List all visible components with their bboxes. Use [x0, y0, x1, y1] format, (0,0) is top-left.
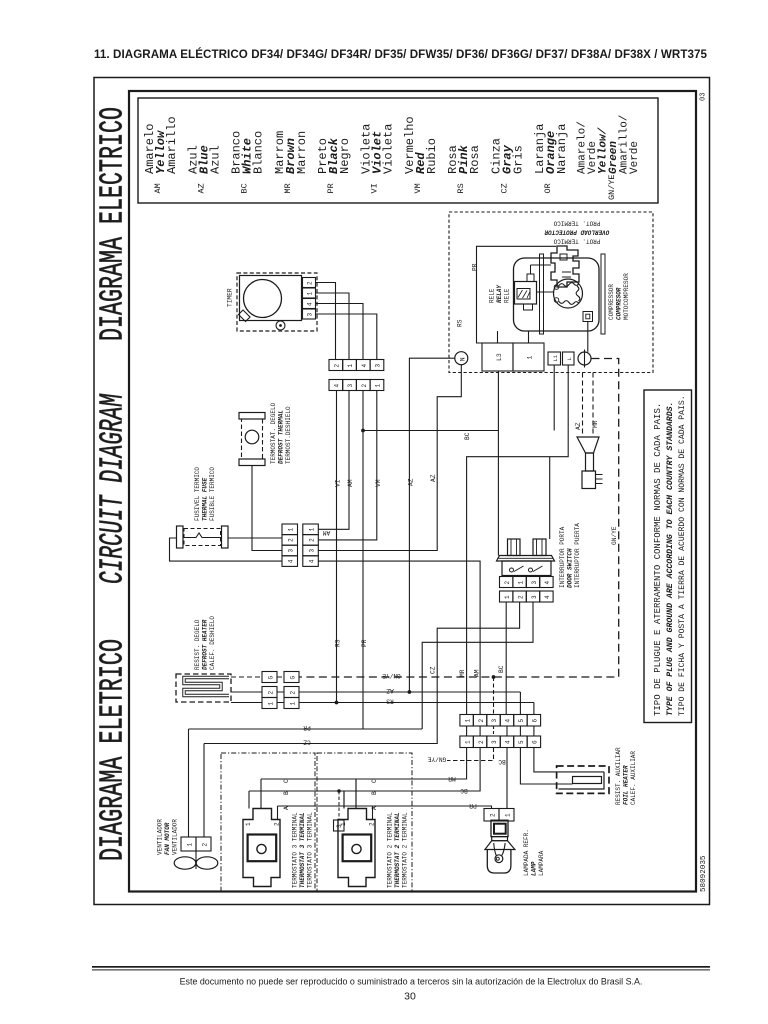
door switch S1	[497, 539, 555, 576]
svg-text:CZ: CZ	[303, 739, 311, 746]
svg-text:C: C	[283, 779, 290, 783]
svg-text:PROT. TERMICO: PROT. TERMICO	[553, 220, 600, 227]
svg-text:RS: RS	[386, 698, 394, 705]
svg-text:INTERRUPTOR PUERTA: INTERRUPTOR PUERTA	[574, 523, 581, 588]
svg-text:G: G	[290, 676, 297, 680]
svg-text:TYPE OF PLUG AND GROUND ARE AC: TYPE OF PLUG AND GROUND ARE ACCORDING TO…	[666, 402, 675, 716]
relay RL1	[515, 265, 554, 310]
wire door switch t3 to PR line	[422, 602, 533, 729]
svg-text:BC: BC	[464, 432, 471, 440]
svg-text:PR: PR	[469, 802, 477, 809]
svg-text:L1: L1	[553, 355, 559, 361]
svg-text:CIRCUIT DIAGRAM: CIRCUIT DIAGRAM	[95, 393, 132, 584]
svg-text:TERMOSTAT. DEGELO: TERMOSTAT. DEGELO	[270, 402, 277, 464]
wire GN/YE dashed branch to strip A t3	[493, 677, 495, 715]
svg-text:AZ: AZ	[430, 474, 437, 482]
svg-text:4: 4	[309, 559, 316, 563]
connector strip CN1 (2 1 4 3)	[329, 360, 384, 371]
wire strip B t6 to foil heater top	[534, 748, 604, 772]
svg-text:6: 6	[532, 719, 539, 723]
svg-text:DOOR SWITCH: DOOR SWITCH	[567, 548, 574, 588]
wire stubs body to terminal blocks	[498, 331, 529, 343]
wire strip B t5 to foil heater inner bar	[520, 748, 572, 785]
connector strip A (1-6)	[460, 715, 541, 727]
svg-text:DEFROST HEATER: DEFROST HEATER	[202, 619, 209, 670]
overload protector (klixon)	[551, 246, 579, 287]
thermostat TH2 wires A B C	[344, 779, 373, 820]
svg-text:3: 3	[288, 549, 295, 553]
heater connector 2 boxes	[262, 687, 277, 698]
svg-text:TERMOSTATO 3 TERMINAL: TERMOSTATO 3 TERMINAL	[307, 812, 314, 888]
svg-text:OVERLOAD PROTECTOR: OVERLOAD PROTECTOR	[544, 229, 609, 236]
svg-text:BC: BC	[498, 758, 506, 765]
svg-text:1: 1	[307, 292, 314, 296]
legend entry VI	[360, 124, 396, 194]
svg-text:58092035: 58092035	[700, 855, 708, 892]
svg-text:AZ: AZ	[407, 478, 414, 486]
terminal L	[563, 352, 575, 365]
svg-text:2: 2	[307, 281, 314, 285]
svg-text:A: A	[283, 806, 290, 810]
wire GN/YE dashed from strip B t3	[447, 748, 494, 761]
svg-text:TIMER: TIMER	[227, 288, 234, 307]
legend entry VM	[403, 116, 439, 193]
svg-text:AM: AM	[323, 529, 331, 536]
svg-text:RS: RS	[335, 639, 342, 647]
svg-text:2: 2	[290, 691, 297, 695]
wire colour legend box	[138, 98, 658, 203]
svg-text:PR: PR	[472, 263, 479, 271]
svg-text:Verde: Verde	[629, 141, 641, 174]
outer border frame	[94, 78, 710, 905]
svg-text:2: 2	[309, 538, 316, 542]
wire AZ from N bottom to plug strip t3	[318, 365, 461, 551]
svg-text:Rubio: Rubio	[425, 138, 439, 174]
door switch terminal row upper (2 1 3 4)	[500, 577, 554, 588]
legend entry BC	[230, 131, 266, 194]
svg-text:INTERRUPTOR PORTA: INTERRUPTOR PORTA	[559, 526, 566, 588]
wire fan t1 up to PR line	[188, 729, 190, 837]
thermostat TH1 wires A B C	[249, 779, 278, 820]
footer rule double line	[92, 966, 710, 968]
compressor mounting rail right	[601, 254, 605, 334]
legend entry PR	[316, 137, 352, 193]
svg-text:RELE: RELE	[489, 288, 496, 303]
foil heater R2	[557, 766, 609, 793]
svg-text:1: 1	[464, 740, 471, 744]
wire strip B t4 to lamp t1	[506, 748, 508, 809]
svg-text:4: 4	[361, 364, 368, 368]
svg-text:CZ: CZ	[500, 183, 510, 193]
svg-text:TERMOST.DESHIELO: TERMOST.DESHIELO	[285, 406, 292, 464]
node junction AZ	[408, 690, 412, 694]
svg-text:Naranja: Naranja	[555, 124, 569, 174]
svg-text:MR: MR	[592, 420, 599, 428]
svg-text:6: 6	[532, 740, 539, 744]
svg-text:1: 1	[464, 719, 471, 723]
lamp terminals	[484, 809, 499, 822]
svg-text:THERMOSTAT 2 TERMINAL: THERMOSTAT 2 TERMINAL	[394, 812, 401, 888]
compressor body shell	[514, 258, 600, 331]
svg-text:PR: PR	[361, 639, 368, 647]
svg-text:CALEF. DESHIELO: CALEF. DESHIELO	[209, 616, 216, 670]
svg-text:03: 03	[700, 93, 708, 101]
svg-text:1: 1	[375, 384, 382, 388]
svg-text:B: B	[283, 791, 290, 795]
svg-text:THERMOSTAT 3 TERMINAL: THERMOSTAT 3 TERMINAL	[299, 812, 306, 888]
svg-text:VM: VM	[375, 479, 382, 487]
TH2 auxiliary dashed tap with connector 3	[338, 791, 340, 820]
svg-text:A: A	[371, 806, 378, 810]
wire C line strip B t1 to thermostats	[261, 748, 467, 809]
compressor internal terminal box B	[583, 312, 593, 322]
svg-text:VM: VM	[413, 183, 423, 193]
legend entry AM	[143, 116, 179, 193]
svg-text:5: 5	[518, 740, 525, 744]
svg-text:THERMAL FUSE: THERMAL FUSE	[202, 477, 209, 521]
svg-text:RELE: RELE	[504, 288, 511, 303]
lamp L1 bulb	[485, 820, 515, 873]
thermostat 2-terminal dash-dot box	[317, 753, 412, 892]
svg-text:N: N	[459, 357, 466, 361]
wire PR from CN2-2 down to fan line	[189, 391, 423, 730]
svg-text:VI: VI	[335, 479, 342, 487]
svg-text:G: G	[268, 676, 275, 680]
timer terminal 1	[303, 288, 316, 298]
svg-text:5: 5	[518, 719, 525, 723]
svg-text:PR: PR	[303, 724, 311, 731]
svg-text:1: 1	[347, 364, 354, 368]
svg-text:VENTILADOR: VENTILADOR	[172, 819, 179, 855]
svg-text:MR: MR	[459, 669, 466, 677]
svg-text:2: 2	[268, 691, 275, 695]
svg-text:BC: BC	[240, 183, 250, 193]
svg-text:4: 4	[307, 302, 314, 306]
wire B line strip B t2 to thermostats	[249, 748, 480, 809]
svg-text:AZ: AZ	[575, 422, 582, 430]
svg-text:3: 3	[531, 595, 538, 599]
thermostat TH2 (2 terminal)	[338, 809, 376, 887]
wire VI/RS vertical from CN2-4	[336, 391, 338, 703]
svg-text:FUSIBLE TERMICO: FUSIBLE TERMICO	[209, 467, 216, 521]
svg-text:2: 2	[369, 822, 376, 826]
heater connector 1 boxes	[262, 698, 277, 709]
wire BC door switch t1 to strip A t4	[505, 602, 507, 715]
thermostat 3-terminal dash-dot box	[221, 753, 315, 892]
svg-text:4: 4	[288, 559, 295, 563]
svg-text:2: 2	[334, 364, 341, 368]
svg-text:TERMOSTATO 3 TERMINAL: TERMOSTATO 3 TERMINAL	[292, 812, 299, 888]
svg-text:3: 3	[491, 719, 498, 723]
wire heater G dashed	[231, 676, 284, 678]
svg-text:AZ: AZ	[197, 183, 207, 193]
wire L1 stub down	[553, 365, 555, 431]
svg-text:L3: L3	[496, 353, 503, 361]
svg-text:Azul: Azul	[209, 145, 223, 174]
svg-text:LAMPARA: LAMPARA	[538, 850, 545, 876]
svg-text:1: 1	[504, 595, 511, 599]
svg-text:VI: VI	[370, 183, 380, 193]
svg-text:DIAGRAMA ELETRICO: DIAGRAMA ELETRICO	[95, 639, 132, 861]
svg-text:GN/YE: GN/YE	[382, 672, 401, 679]
timer T1	[227, 273, 318, 331]
thermal fuse F1	[177, 526, 229, 548]
svg-text:AM: AM	[347, 479, 354, 487]
svg-text:1: 1	[290, 702, 297, 706]
svg-text:VENTILADOR: VENTILADOR	[157, 819, 164, 855]
wire heater 1 (RS) to strip A t6	[231, 703, 534, 715]
defrost heater R1	[176, 674, 231, 702]
compressor mounting rail left	[540, 254, 544, 334]
svg-text:3: 3	[375, 364, 382, 368]
timer terminal 3	[303, 309, 316, 319]
wire A line lamp t2 to thermostats	[278, 806, 492, 809]
terminal L1	[548, 352, 561, 365]
svg-text:TIPO DE FICHA Y POSTA A TIERRA: TIPO DE FICHA Y POSTA A TIERRA DE ACUERD…	[678, 395, 687, 716]
svg-text:2: 2	[288, 538, 295, 542]
svg-text:Rosa: Rosa	[468, 145, 482, 174]
mains plug P1	[577, 437, 603, 489]
svg-text:3: 3	[307, 313, 314, 317]
wire AZ from N left down to heater line	[409, 358, 454, 692]
svg-text:2: 2	[478, 740, 485, 744]
wire timer t2 to strip1	[316, 283, 336, 360]
svg-text:AM: AM	[153, 183, 163, 193]
svg-text:RESIST. DEGELO: RESIST. DEGELO	[194, 619, 201, 670]
svg-text:C: C	[371, 779, 378, 783]
svg-text:FAN MOTOR: FAN MOTOR	[164, 822, 171, 855]
svg-text:Gris: Gris	[512, 145, 526, 174]
svg-text:DIAGRAMA ELECTRICO: DIAGRAMA ELECTRICO	[95, 107, 132, 341]
svg-text:2: 2	[517, 595, 524, 599]
svg-text:GN/YE: GN/YE	[611, 526, 618, 545]
legend entry CZ	[490, 138, 526, 194]
compressor enclosure dash-dot box	[449, 212, 653, 373]
heater connector G boxes	[262, 672, 277, 683]
plug strip left column (1 2 3 4)	[282, 524, 298, 566]
svg-text:COMPRESOR: COMPRESOR	[616, 287, 623, 320]
svg-text:OR: OR	[543, 183, 553, 193]
svg-text:AM: AM	[474, 669, 481, 677]
compressor terminal L3	[482, 343, 513, 371]
svg-text:1: 1	[517, 581, 524, 585]
wire timer t3 to strip1	[316, 314, 377, 360]
svg-text:2: 2	[504, 581, 511, 585]
legend entry GN/YE	[577, 115, 642, 200]
svg-text:2: 2	[361, 384, 368, 388]
node junction GN/YE branch	[492, 675, 496, 679]
svg-text:BC: BC	[498, 665, 505, 673]
svg-text:3: 3	[309, 549, 316, 553]
wire timer t4 to strip1	[316, 304, 364, 360]
legend entry OR	[533, 124, 569, 194]
wire terminal B to earth pin	[587, 322, 589, 352]
svg-text:4: 4	[334, 384, 341, 388]
svg-text:TIPO DE PLUGUE E ATERRAMENTO C: TIPO DE PLUGUE E ATERRAMENTO CONFORME NO…	[653, 403, 663, 716]
svg-text:FUSIVEL TERMICO: FUSIVEL TERMICO	[194, 467, 201, 521]
svg-text:4: 4	[505, 740, 512, 744]
plug strip right column (1 2 3 4)	[303, 524, 319, 566]
svg-text:RS: RS	[456, 183, 466, 193]
svg-text:Blanco: Blanco	[252, 131, 266, 174]
svg-text:2: 2	[202, 843, 209, 847]
legend entry MR	[273, 131, 309, 194]
svg-text:1: 1	[245, 822, 252, 826]
door switch terminal row lower (1 2 3 4)	[500, 591, 554, 602]
connector strip CN2 (4 3 2 1)	[329, 380, 384, 391]
svg-text:MR: MR	[448, 775, 456, 782]
svg-text:3: 3	[336, 824, 343, 828]
svg-text:Marron: Marron	[295, 131, 309, 174]
svg-text:RS: RS	[457, 319, 464, 327]
svg-text:BC: BC	[460, 787, 468, 794]
node junction BC tap	[361, 429, 365, 433]
wire GN/YE dashed earth run	[299, 359, 619, 678]
compressor motor windings	[554, 279, 583, 308]
earth pin	[578, 352, 591, 365]
svg-text:3: 3	[347, 384, 354, 388]
legend entry RS	[446, 144, 482, 193]
wire heater 2 (AZ) to strip A t5	[231, 692, 520, 715]
legend entry AZ	[187, 145, 223, 193]
svg-text:3: 3	[491, 740, 498, 744]
svg-text:LAMPADA REFR.: LAMPADA REFR.	[523, 829, 530, 876]
compressor terminal 1	[513, 343, 544, 371]
svg-text:Amarillo: Amarillo	[165, 116, 179, 174]
svg-text:4: 4	[544, 581, 551, 585]
svg-text:FOIL HEATER: FOIL HEATER	[623, 765, 630, 805]
svg-text:1: 1	[309, 527, 316, 531]
plug type note box	[644, 390, 692, 723]
timer terminal 4	[303, 299, 316, 309]
svg-text:GN/YE: GN/YE	[427, 756, 446, 763]
svg-text:TERMOSTATO 2 TERMINAL: TERMOSTATO 2 TERMINAL	[402, 812, 409, 888]
svg-text:MOTOCOMPRESOR: MOTOCOMPRESOR	[623, 273, 630, 320]
wire MR from L to strip A t1	[467, 365, 569, 715]
svg-text:MR: MR	[283, 183, 293, 193]
svg-text:RELAY: RELAY	[496, 284, 503, 303]
svg-text:GN/YE: GN/YE	[607, 174, 617, 200]
svg-text:Violeta: Violeta	[382, 124, 396, 174]
wire fuse right to plug strip t2	[228, 537, 282, 539]
svg-text:1: 1	[505, 813, 512, 817]
svg-text:30: 30	[404, 991, 416, 1003]
wire AM from CN2-3 to plug strip	[318, 391, 349, 530]
main diagram frame	[129, 91, 696, 892]
connector strip B (1-6)	[460, 736, 541, 748]
svg-text:4: 4	[505, 719, 512, 723]
fan motor M1	[174, 837, 218, 869]
svg-text:CALEF. AUXILIAR: CALEF. AUXILIAR	[630, 751, 637, 805]
wire fuse left to plug strip t4	[170, 538, 283, 561]
wire PR protector to L3 box	[477, 246, 557, 343]
svg-text:PROT. TERMICO: PROT. TERMICO	[553, 238, 600, 245]
svg-text:1: 1	[527, 356, 534, 360]
thermostat TH1 (3 terminal)	[243, 809, 281, 887]
svg-text:COMPRESSOR: COMPRESSOR	[608, 284, 615, 320]
svg-text:4: 4	[544, 595, 551, 599]
node junction VI-RS	[335, 701, 339, 705]
svg-text:Negro: Negro	[338, 138, 352, 174]
svg-text:PR: PR	[326, 183, 336, 193]
node N	[455, 352, 468, 365]
wire CZ door switch t2 to fan	[204, 602, 520, 837]
svg-text:2: 2	[274, 822, 281, 826]
svg-text:RESIST. AUXILIAR: RESIST. AUXILIAR	[615, 747, 622, 805]
timer terminal 2	[303, 278, 316, 288]
wire AM right strip t4 to strip A t2	[318, 561, 480, 714]
svg-text:1: 1	[268, 702, 275, 706]
inter-strip stubs	[467, 726, 534, 736]
svg-text:DEFROST THERMAL: DEFROST THERMAL	[278, 410, 285, 464]
svg-text:LAMP: LAMP	[531, 861, 538, 876]
svg-text:2: 2	[478, 719, 485, 723]
wire VM from CN2-1 to plug strip	[318, 391, 377, 540]
svg-text:2: 2	[490, 813, 497, 817]
svg-text:11. DIAGRAMA ELÉCTRICO DF34/ D: 11. DIAGRAMA ELÉCTRICO DF34/ DF34G/ DF34…	[94, 48, 708, 61]
mains plug cord dashed MR/AZ	[583, 373, 594, 438]
wire timer t1 to strip1	[316, 293, 350, 360]
svg-text:AZ: AZ	[386, 687, 394, 694]
svg-text:Este documento no puede ser re: Este documento no puede ser reproducido …	[180, 977, 643, 987]
svg-text:CZ: CZ	[430, 666, 437, 674]
svg-text:1: 1	[288, 527, 295, 531]
svg-text:B: B	[371, 791, 378, 795]
svg-text:3: 3	[531, 581, 538, 585]
svg-text:1: 1	[187, 843, 194, 847]
wire BC horizontal to compressor L3 and door switch	[363, 371, 498, 556]
wire defrost thermostat to plug strip t3	[252, 466, 282, 551]
defrost thermostat	[239, 413, 265, 466]
svg-text:L: L	[567, 357, 573, 360]
svg-text:TERMOSTATO 2 TERMINAL: TERMOSTATO 2 TERMINAL	[387, 812, 394, 888]
